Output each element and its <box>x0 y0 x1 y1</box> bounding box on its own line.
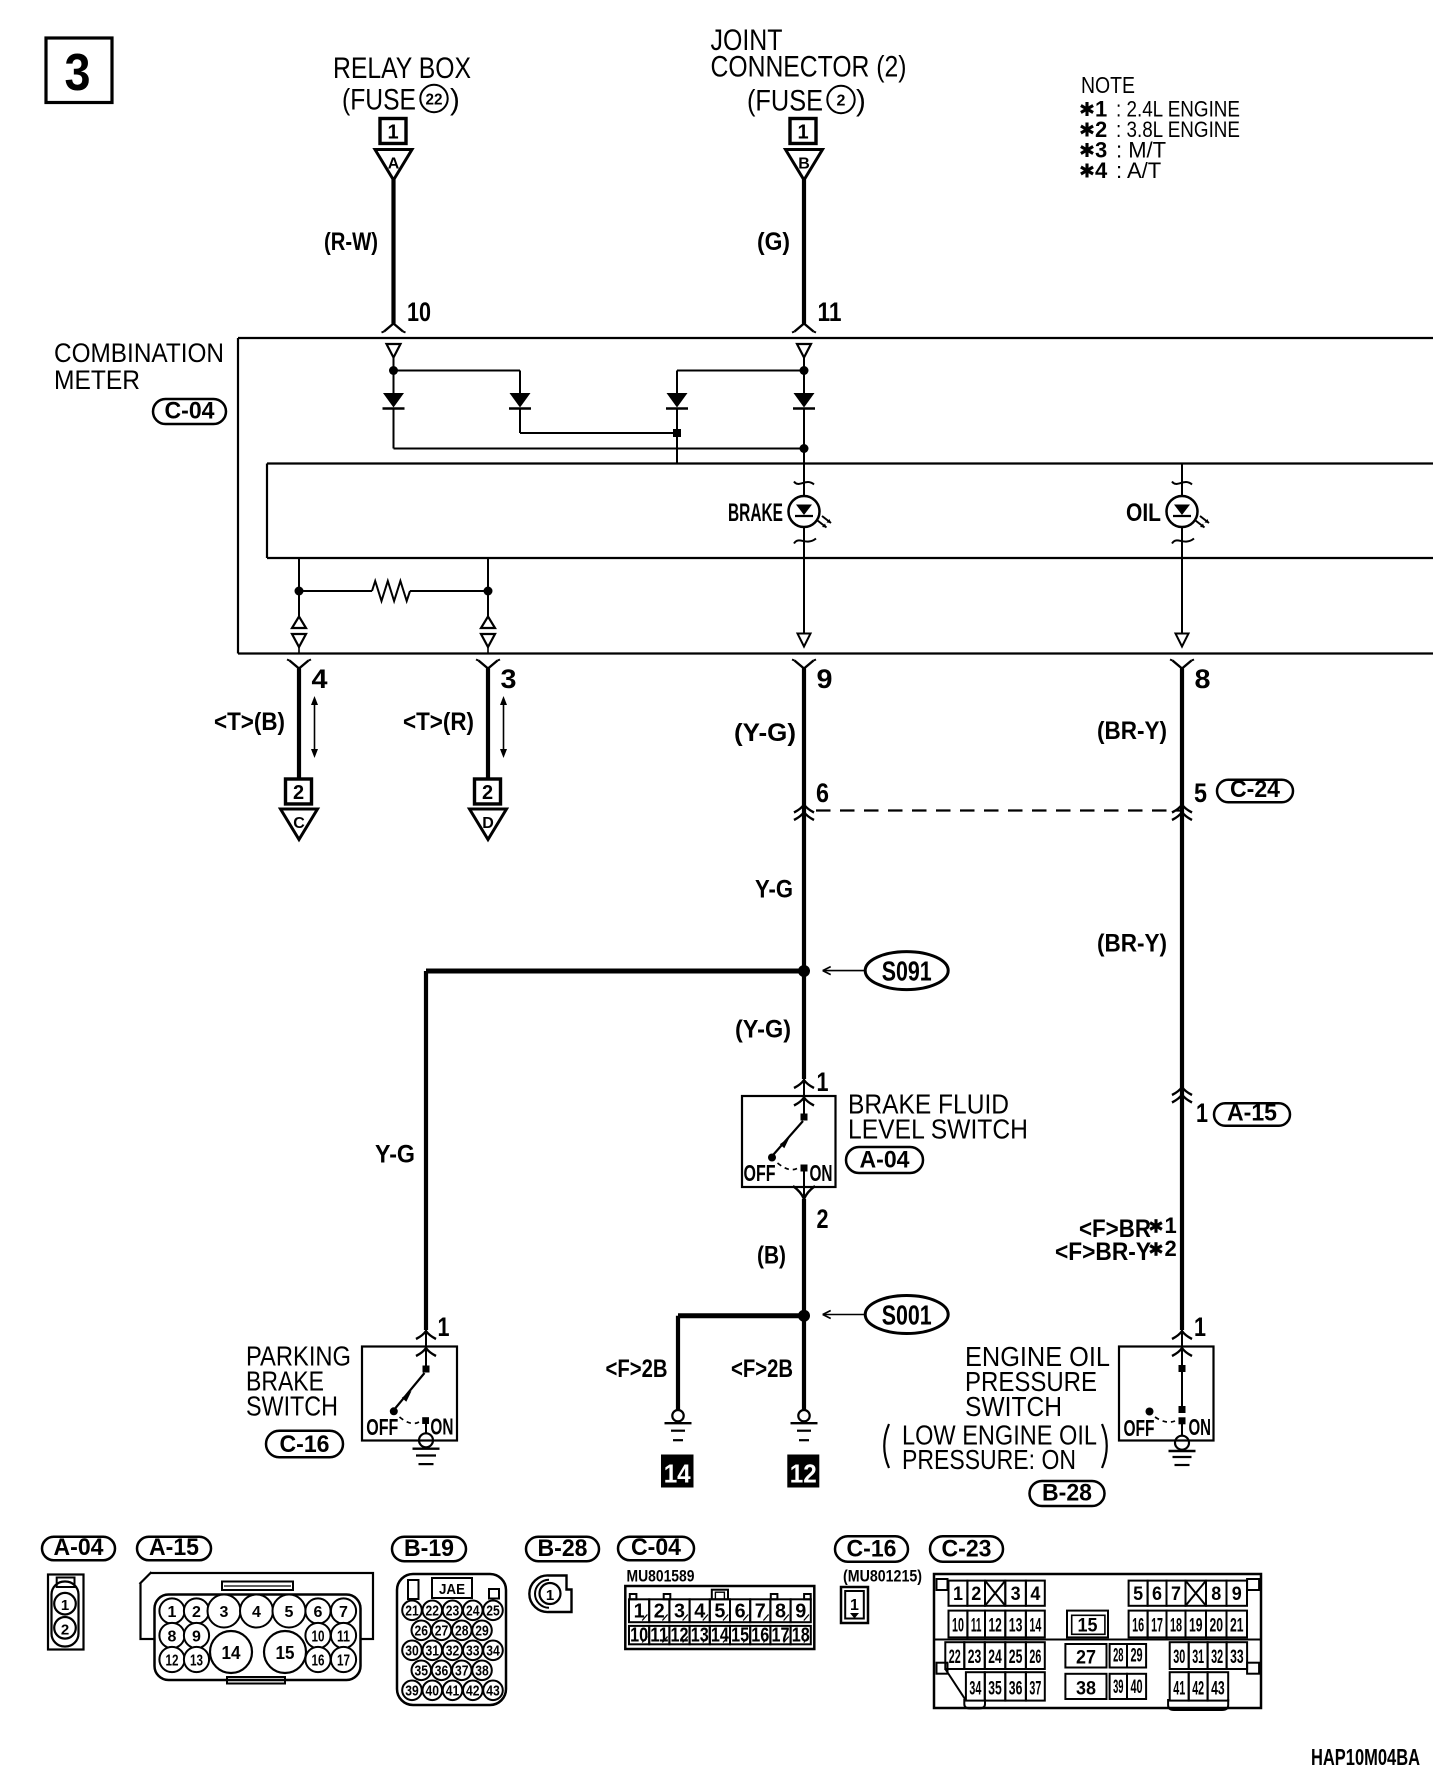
svg-text:1: 1 <box>438 1312 450 1342</box>
svg-text:9: 9 <box>1232 1584 1242 1605</box>
svg-text:15: 15 <box>731 1625 749 1647</box>
svg-text:JAE: JAE <box>439 1581 465 1598</box>
svg-text:12: 12 <box>166 1653 179 1670</box>
svg-text:CONNECTOR (2): CONNECTOR (2) <box>711 51 907 84</box>
svg-text:26: 26 <box>1029 1647 1041 1668</box>
svg-text:Y-G: Y-G <box>755 876 793 904</box>
svg-text:28: 28 <box>1113 1646 1123 1667</box>
svg-text:12: 12 <box>989 1615 1002 1636</box>
svg-text:17: 17 <box>337 1653 350 1670</box>
svg-text:11: 11 <box>337 1629 350 1646</box>
svg-text:2: 2 <box>1165 1236 1177 1261</box>
svg-text:33: 33 <box>466 1644 480 1660</box>
svg-text:23: 23 <box>446 1604 460 1620</box>
svg-text:1: 1 <box>1194 1312 1206 1342</box>
svg-text:9: 9 <box>192 1629 201 1646</box>
svg-text:41: 41 <box>446 1684 460 1700</box>
svg-text:27: 27 <box>1076 1648 1096 1669</box>
svg-text:HAP10M04BA: HAP10M04BA <box>1311 1744 1420 1770</box>
svg-text:40: 40 <box>1131 1677 1143 1698</box>
svg-text:22: 22 <box>426 1604 440 1620</box>
svg-text:3: 3 <box>501 664 517 694</box>
svg-text:A-04: A-04 <box>54 1534 104 1561</box>
svg-text:(B): (B) <box>757 1242 786 1270</box>
svg-text:30: 30 <box>405 1644 419 1660</box>
svg-text:MU801589: MU801589 <box>627 1567 695 1586</box>
svg-text:11: 11 <box>650 1625 668 1647</box>
svg-text:7: 7 <box>339 1604 348 1621</box>
svg-text:1: 1 <box>850 1597 859 1614</box>
svg-text:13: 13 <box>691 1625 709 1647</box>
svg-text:<F>2B: <F>2B <box>731 1355 793 1383</box>
svg-text:10: 10 <box>630 1625 648 1647</box>
svg-text:24: 24 <box>988 1647 1002 1668</box>
svg-text:1: 1 <box>546 1587 554 1604</box>
svg-text:18: 18 <box>1170 1615 1182 1636</box>
svg-text:31: 31 <box>426 1644 440 1660</box>
svg-text:16: 16 <box>751 1625 769 1647</box>
svg-text:(G): (G) <box>757 228 790 256</box>
svg-text:7: 7 <box>1171 1584 1181 1605</box>
svg-text:(MU801215): (MU801215) <box>843 1567 922 1586</box>
svg-text:5: 5 <box>1194 778 1207 808</box>
svg-text:NOTE: NOTE <box>1081 72 1135 98</box>
svg-text:22: 22 <box>426 92 443 109</box>
svg-text:14: 14 <box>1029 1615 1041 1636</box>
svg-text:2: 2 <box>482 782 493 804</box>
svg-text:35: 35 <box>415 1664 429 1680</box>
svg-text:34: 34 <box>486 1644 500 1660</box>
svg-text:C: C <box>293 815 305 832</box>
svg-text:2: 2 <box>192 1604 201 1621</box>
svg-text:<F>2B: <F>2B <box>606 1355 668 1383</box>
svg-text:14: 14 <box>664 1459 692 1489</box>
svg-text:C-04: C-04 <box>165 398 215 425</box>
svg-text:29: 29 <box>1131 1646 1143 1667</box>
svg-text:1: 1 <box>168 1604 177 1621</box>
svg-text:42: 42 <box>466 1684 480 1700</box>
svg-text:14: 14 <box>711 1625 730 1647</box>
svg-text:21: 21 <box>405 1604 419 1620</box>
svg-text:11: 11 <box>818 297 842 327</box>
svg-text:1: 1 <box>1196 1098 1208 1128</box>
svg-text:1: 1 <box>797 121 808 143</box>
svg-text:A: A <box>388 155 400 172</box>
svg-text:SWITCH: SWITCH <box>965 1391 1062 1422</box>
svg-text:ON: ON <box>810 1160 833 1186</box>
svg-text:19: 19 <box>1189 1615 1203 1636</box>
svg-text:(BR-Y): (BR-Y) <box>1097 717 1167 745</box>
svg-text:24: 24 <box>466 1604 480 1620</box>
svg-text:17: 17 <box>1151 1615 1163 1636</box>
svg-text:36: 36 <box>435 1664 449 1680</box>
svg-text:10: 10 <box>312 1629 325 1646</box>
svg-text:5: 5 <box>1133 1584 1143 1605</box>
svg-text:36: 36 <box>1009 1679 1023 1700</box>
svg-text:38: 38 <box>475 1664 489 1680</box>
svg-text:(BR-Y): (BR-Y) <box>1097 930 1167 958</box>
svg-text:22: 22 <box>949 1647 961 1668</box>
svg-text:RELAY BOX: RELAY BOX <box>333 52 471 85</box>
svg-text:SWITCH: SWITCH <box>246 1391 338 1422</box>
svg-text:43: 43 <box>1211 1679 1225 1700</box>
svg-text:13: 13 <box>190 1653 203 1670</box>
svg-text:43: 43 <box>486 1684 500 1700</box>
svg-text:(Y-G): (Y-G) <box>734 719 796 747</box>
svg-text:37: 37 <box>455 1664 469 1680</box>
svg-text:12: 12 <box>790 1459 817 1489</box>
svg-text:39: 39 <box>1113 1677 1123 1698</box>
svg-text:(FUSE: (FUSE <box>342 84 416 117</box>
svg-text:OFF: OFF <box>1124 1415 1155 1441</box>
svg-text:2: 2 <box>817 1204 829 1234</box>
svg-text:2: 2 <box>837 93 846 110</box>
svg-text:18: 18 <box>792 1625 810 1647</box>
svg-text:17: 17 <box>772 1625 790 1647</box>
svg-text:2: 2 <box>971 1584 981 1605</box>
svg-text:27: 27 <box>435 1624 449 1640</box>
svg-text:8: 8 <box>1195 664 1211 694</box>
svg-text:<T>(R): <T>(R) <box>403 708 474 736</box>
svg-text:13: 13 <box>1009 1615 1023 1636</box>
svg-text:C-16: C-16 <box>280 1431 330 1458</box>
svg-text:33: 33 <box>1230 1647 1244 1668</box>
svg-text:6: 6 <box>314 1604 323 1621</box>
svg-text:OFF: OFF <box>366 1414 398 1440</box>
svg-text:Y-G: Y-G <box>375 1141 415 1169</box>
svg-text:(Y-G): (Y-G) <box>735 1016 791 1044</box>
svg-text:<T>(B): <T>(B) <box>214 708 285 736</box>
svg-text:25: 25 <box>486 1604 500 1620</box>
svg-text:LEVEL SWITCH: LEVEL SWITCH <box>848 1114 1028 1145</box>
svg-text:35: 35 <box>988 1679 1002 1700</box>
svg-text:A-04: A-04 <box>860 1147 910 1174</box>
svg-text:4: 4 <box>252 1604 261 1621</box>
svg-text:(FUSE: (FUSE <box>747 85 823 118</box>
svg-text:B: B <box>798 155 810 172</box>
svg-text:32: 32 <box>446 1644 460 1660</box>
svg-text:ON: ON <box>1189 1414 1212 1440</box>
svg-text:21: 21 <box>1230 1615 1244 1636</box>
svg-text:29: 29 <box>475 1624 489 1640</box>
svg-text:A-15: A-15 <box>1227 1099 1277 1126</box>
svg-text:10: 10 <box>952 1615 964 1636</box>
svg-text:B-28: B-28 <box>1042 1480 1092 1507</box>
svg-text:4: 4 <box>1030 1584 1040 1605</box>
svg-text:D: D <box>482 815 494 832</box>
svg-text:OIL: OIL <box>1126 499 1161 527</box>
svg-text:5: 5 <box>285 1604 294 1621</box>
svg-text:6: 6 <box>1152 1584 1162 1605</box>
svg-text:8: 8 <box>1211 1584 1221 1605</box>
svg-text:: A/T: : A/T <box>1116 158 1161 183</box>
svg-text:30: 30 <box>1173 1647 1185 1668</box>
svg-text:3: 3 <box>1011 1584 1021 1605</box>
svg-text:S001: S001 <box>882 1299 932 1330</box>
svg-text:B-28: B-28 <box>538 1535 588 1562</box>
svg-text:): ) <box>450 84 460 117</box>
svg-text:1: 1 <box>953 1584 963 1605</box>
svg-text:C-24: C-24 <box>1230 776 1280 803</box>
svg-text:32: 32 <box>1211 1647 1223 1668</box>
svg-text:41: 41 <box>1173 1679 1185 1700</box>
svg-text:16: 16 <box>312 1653 325 1670</box>
svg-text:BRAKE: BRAKE <box>728 499 783 527</box>
svg-text:40: 40 <box>426 1684 440 1700</box>
svg-text:C-16: C-16 <box>847 1535 897 1562</box>
svg-text:1: 1 <box>817 1067 829 1097</box>
svg-text:<F>BR-Y: <F>BR-Y <box>1055 1238 1151 1266</box>
svg-text:10: 10 <box>407 297 431 327</box>
svg-text:A-15: A-15 <box>149 1534 199 1561</box>
svg-text:B-19: B-19 <box>404 1535 454 1562</box>
svg-text:39: 39 <box>405 1684 419 1700</box>
svg-text:2: 2 <box>61 1621 69 1638</box>
svg-text:OFF: OFF <box>744 1160 776 1186</box>
svg-text:4: 4 <box>312 664 328 694</box>
svg-text:): ) <box>856 85 866 118</box>
svg-text:1: 1 <box>387 121 398 143</box>
svg-text:11: 11 <box>971 1615 982 1636</box>
svg-text:PRESSURE: ON: PRESSURE: ON <box>902 1444 1076 1475</box>
svg-text:38: 38 <box>1076 1679 1096 1700</box>
svg-text:8: 8 <box>168 1629 177 1646</box>
svg-text:3: 3 <box>65 44 91 102</box>
svg-text:1: 1 <box>61 1597 69 1614</box>
svg-text:26: 26 <box>415 1624 429 1640</box>
svg-text:15: 15 <box>1078 1616 1098 1637</box>
svg-text:C-23: C-23 <box>942 1535 992 1562</box>
svg-text:3: 3 <box>220 1604 229 1621</box>
svg-text:METER: METER <box>54 365 140 395</box>
svg-text:9: 9 <box>817 664 833 694</box>
svg-text:42: 42 <box>1192 1679 1204 1700</box>
svg-text:(R-W): (R-W) <box>324 228 378 256</box>
svg-text:1: 1 <box>1165 1213 1177 1238</box>
svg-text:20: 20 <box>1210 1615 1224 1636</box>
svg-text:25: 25 <box>1009 1647 1023 1668</box>
svg-text:14: 14 <box>222 1643 241 1663</box>
svg-text:23: 23 <box>968 1647 982 1668</box>
svg-text:6: 6 <box>816 778 829 808</box>
svg-text:COMBINATION: COMBINATION <box>54 338 224 368</box>
svg-text:12: 12 <box>671 1625 689 1647</box>
svg-text:34: 34 <box>969 1679 981 1700</box>
svg-text:ON: ON <box>430 1414 453 1440</box>
svg-text:37: 37 <box>1029 1679 1041 1700</box>
svg-text:28: 28 <box>455 1624 469 1640</box>
svg-text:16: 16 <box>1132 1615 1144 1636</box>
svg-text:4: 4 <box>1095 158 1108 183</box>
svg-text:S091: S091 <box>882 955 932 986</box>
svg-text:C-04: C-04 <box>631 1534 681 1561</box>
svg-text:2: 2 <box>293 782 304 804</box>
svg-text:31: 31 <box>1192 1647 1204 1668</box>
svg-text:15: 15 <box>276 1643 295 1663</box>
